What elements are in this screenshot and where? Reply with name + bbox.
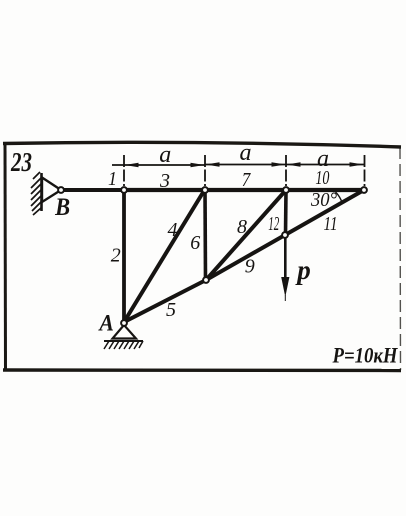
dimension line a (T2-T3) xyxy=(205,164,286,166)
member 7 (T2 to T3) xyxy=(205,188,286,192)
svg-text:a: a xyxy=(240,140,252,166)
dimension extension tick above T4 xyxy=(364,155,366,186)
member 6 (T2 to M1) xyxy=(203,190,207,280)
member 5 (A to M1) xyxy=(124,280,206,322)
svg-text:P=10кН: P=10кН xyxy=(332,343,399,368)
dimension extension tick above T3 xyxy=(285,155,287,186)
node T1 xyxy=(121,187,127,193)
wall at support B xyxy=(40,173,43,211)
node A xyxy=(121,320,127,326)
svg-text:2: 2 xyxy=(111,245,121,267)
member 12 (T3 to M2) xyxy=(284,190,288,235)
svg-text:p: p xyxy=(295,255,311,285)
member 2 (T1 to A) xyxy=(122,190,126,322)
member 4 (A to T2) xyxy=(124,190,205,322)
svg-text:30°: 30° xyxy=(310,189,337,211)
node M1 xyxy=(203,277,209,283)
pin support at A: triangle xyxy=(113,325,137,339)
dim arrowhead left at T3 xyxy=(287,162,301,167)
member 8 (M1 to T3) xyxy=(206,190,286,280)
member 1 (B to T1) xyxy=(64,188,124,192)
svg-text:4: 4 xyxy=(168,219,178,241)
pin support triangle at B xyxy=(42,178,61,203)
svg-text:9: 9 xyxy=(245,256,255,278)
svg-text:11: 11 xyxy=(324,213,338,235)
node T2 xyxy=(202,187,208,193)
member 9 (M1 to M2) xyxy=(206,235,285,280)
svg-text:3: 3 xyxy=(159,170,170,192)
angle arc 30 deg at T4 xyxy=(336,192,343,203)
svg-text:1: 1 xyxy=(108,168,117,190)
member 3 (T1 to T2) xyxy=(124,188,205,192)
svg-text:a: a xyxy=(159,142,171,168)
dimension extension tick above T2 xyxy=(204,155,206,186)
svg-text:7: 7 xyxy=(242,169,251,191)
dim arrowhead left at T1 xyxy=(125,163,139,168)
force P arrow xyxy=(284,238,287,285)
svg-text:5: 5 xyxy=(166,299,176,321)
node T4 xyxy=(361,187,367,193)
svg-text:6: 6 xyxy=(190,232,200,254)
svg-text:8: 8 xyxy=(237,216,247,238)
node B xyxy=(58,187,64,193)
ground hatching at A xyxy=(104,341,143,349)
wall hatching at B xyxy=(31,172,41,215)
dimension extension tick above T1 xyxy=(123,155,125,186)
frame border xyxy=(3,142,401,370)
dimension line a (T1-T2) xyxy=(112,164,205,166)
dim arrowhead left at T2 xyxy=(206,162,220,167)
dim arrowhead right at T3 xyxy=(272,162,286,167)
node M2 xyxy=(282,232,288,238)
svg-text:12: 12 xyxy=(268,213,279,235)
svg-text:A: A xyxy=(97,311,113,336)
dim arrowhead right at T2 xyxy=(191,163,205,168)
node T3 xyxy=(283,187,289,193)
svg-text:10: 10 xyxy=(315,167,329,189)
ground line at A xyxy=(104,340,143,342)
member 10 (T3 to T4) xyxy=(286,188,364,192)
dimension line a (T3-T4) xyxy=(286,164,364,166)
svg-text:B: B xyxy=(54,194,70,221)
member 11 (M2 to T4) xyxy=(285,190,364,235)
svg-text:23: 23 xyxy=(10,147,32,177)
dim arrowhead right at T4 xyxy=(350,162,364,167)
